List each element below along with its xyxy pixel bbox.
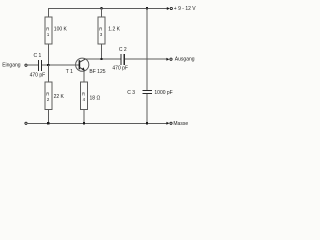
svg-text:470 pF: 470 pF xyxy=(30,72,46,78)
terminal: +9-12V supply circle xyxy=(170,7,172,9)
node: R4 / ground rail junction xyxy=(83,122,85,124)
wire: R2 bottom lead xyxy=(48,110,50,124)
node: top rail / R3 junction xyxy=(100,7,102,9)
transistor Q1 (T1 BF 125) xyxy=(76,58,89,71)
wire: R2 top lead xyxy=(48,65,50,83)
resistor R4 xyxy=(81,82,88,110)
wire: R1 bottom lead xyxy=(48,44,50,65)
terminal: Masse arrow xyxy=(166,122,169,125)
wire: C3 bottom lead xyxy=(146,94,148,123)
wire: +9-12V top supply rail xyxy=(48,8,168,10)
svg-text:+ 9 - 12 V: + 9 - 12 V xyxy=(174,6,196,12)
terminal: +9-12V supply arrow xyxy=(167,7,170,10)
wire: collector line to output node xyxy=(86,58,121,60)
wire: input lead to C1 xyxy=(27,64,38,66)
wire: R4 bottom lead xyxy=(83,110,85,124)
wire: R3 top lead xyxy=(101,8,103,18)
node: base junction (R1/R2/C1/base) xyxy=(47,64,49,66)
svg-text:C 2: C 2 xyxy=(119,47,127,53)
terminal: input ground circle (bottom left) xyxy=(25,122,27,124)
terminal: Ausgang circle xyxy=(170,58,172,60)
svg-text:22 K: 22 K xyxy=(54,94,65,100)
node: collector junction (R3/C2) xyxy=(100,58,102,60)
svg-text:18 Ω: 18 Ω xyxy=(90,96,101,102)
terminal: Eingang input circle xyxy=(25,64,27,66)
terminal: Ausgang arrow xyxy=(166,58,169,61)
svg-text:Ausgang: Ausgang xyxy=(175,57,195,63)
resistor R1 xyxy=(45,17,52,44)
svg-text:1.2 K: 1.2 K xyxy=(108,27,120,33)
wire: R3 bottom lead xyxy=(101,44,103,60)
terminal: Masse circle xyxy=(170,122,172,124)
wire: R1 top lead xyxy=(48,8,50,18)
svg-text:470 pF: 470 pF xyxy=(112,65,128,71)
wire: C3 branch from top rail xyxy=(146,8,148,90)
svg-text:1000 pF: 1000 pF xyxy=(154,90,172,96)
wire: ground bottom rail xyxy=(27,122,167,124)
resistor R3 xyxy=(98,17,105,44)
capacitor C1 xyxy=(38,60,40,71)
resistor R2 xyxy=(45,82,52,110)
wire: emitter lead to R4 xyxy=(83,71,85,83)
svg-text:T 1: T 1 xyxy=(66,69,73,75)
node: C3 / ground rail junction xyxy=(146,122,148,124)
wire: C2 to Ausgang terminal xyxy=(125,58,167,60)
svg-text:C 3: C 3 xyxy=(127,90,135,96)
node: top rail / C3 junction xyxy=(146,7,148,9)
capacitor C2 xyxy=(120,54,122,65)
svg-text:BF 125: BF 125 xyxy=(89,69,105,75)
node: R2 / ground rail junction xyxy=(47,122,49,124)
svg-text:Eingang: Eingang xyxy=(2,63,21,69)
wire: C1 to base node xyxy=(42,64,79,66)
capacitor C3 xyxy=(142,89,152,91)
svg-text:Masse: Masse xyxy=(173,121,188,127)
svg-text:100 K: 100 K xyxy=(54,27,68,33)
svg-text:C 1: C 1 xyxy=(34,53,42,59)
